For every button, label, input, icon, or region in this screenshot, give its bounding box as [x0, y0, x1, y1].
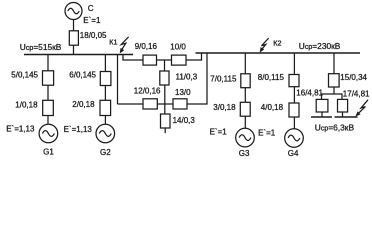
svg-text:Uср=230кВ: Uср=230кВ	[299, 41, 341, 51]
wire: 15 to split node	[333, 87, 335, 94]
resistor 14 (14/0,3)	[161, 114, 171, 128]
svg-text:E`=1,13: E`=1,13	[6, 124, 35, 133]
wire: 12 to 13	[157, 103, 173, 105]
resistor 2 (2/0,18)	[100, 100, 111, 115]
wire: lower row right segment up to 230kV bus	[187, 53, 207, 104]
svg-text:E`=1: E`=1	[210, 127, 228, 136]
resistor 12 (12/0,16)	[143, 99, 157, 109]
svg-text:G1: G1	[43, 148, 54, 157]
wire: 6 to 2	[104, 86, 106, 101]
svg-text:12/0,16: 12/0,16	[134, 87, 161, 96]
svg-text:E`=1,13: E`=1,13	[64, 125, 93, 134]
svg-text:5/0,145: 5/0,145	[11, 71, 38, 80]
wire: stub 16 to terminal	[321, 112, 323, 117]
svg-text:1/0,18: 1/0,18	[15, 101, 38, 110]
resistor 16 (16/4,81)	[316, 99, 328, 112]
svg-text:18/0,05: 18/0,05	[80, 31, 107, 40]
generator C (circle with sine)	[65, 3, 82, 20]
svg-text:16/4,81: 16/4,81	[296, 89, 323, 98]
svg-text:3/0,18: 3/0,18	[213, 103, 236, 112]
wire: stub below 14	[164, 128, 166, 133]
wire: 9 to 10	[157, 59, 172, 61]
wire: G2 column from bus515	[104, 55, 106, 72]
svg-text:14/0,3: 14/0,3	[173, 116, 196, 125]
svg-text:G2: G2	[100, 148, 111, 157]
svg-text:13/0: 13/0	[175, 88, 191, 97]
svg-text:К2: К2	[273, 38, 281, 47]
svg-text:Uср=515кВ: Uср=515кВ	[20, 42, 62, 52]
fault K2 lightning arrow	[260, 38, 269, 52]
wire: 3 to G3	[244, 116, 246, 128]
bus Ucp=230kV	[196, 52, 361, 54]
bus Ucp=515kV	[24, 54, 133, 56]
wire: 7 to 3	[244, 88, 246, 103]
wire: split connector	[322, 94, 343, 99]
svg-text:C: C	[88, 4, 94, 13]
resistor 8 (8/0,115)	[289, 75, 299, 87]
svg-text:8/0,115: 8/0,115	[258, 73, 285, 82]
svg-text:Uср=6,3кВ: Uср=6,3кВ	[315, 122, 355, 132]
wire: 5 to 1	[47, 85, 49, 100]
resistor 10 (10/0)	[172, 55, 187, 65]
fault lightning arrow at 6,3kV terminal	[355, 100, 368, 117]
wire: 8 to 4	[293, 87, 295, 103]
wire: 18 to 515kV bus	[73, 45, 75, 54]
wire: 1 to G1	[47, 116, 49, 124]
generator G3	[236, 128, 255, 147]
wire: C to transformer 18	[73, 20, 75, 31]
svg-text:9/0,16: 9/0,16	[135, 42, 158, 51]
resistor 1 (1/0,18)	[43, 100, 54, 115]
resistor 15 (15/0,34)	[329, 74, 340, 87]
svg-text:G3: G3	[239, 149, 250, 158]
resistor 17 (17/4,81)	[338, 99, 348, 112]
generator G1	[39, 124, 58, 143]
resistor 4 (4/0,18)	[289, 103, 299, 117]
wire: 11 down through lower row to 14	[164, 85, 166, 114]
resistor 3 (3/0,18)	[240, 102, 250, 116]
svg-text:G4: G4	[288, 149, 299, 158]
wire: G4 column from bus230	[293, 53, 295, 75]
resistor 9 (9/0,16)	[143, 55, 157, 65]
resistor 6 (6/0,145)	[100, 72, 111, 86]
resistor 5 (5/0,145)	[43, 71, 54, 85]
svg-text:4/0,18: 4/0,18	[261, 103, 284, 112]
resistor 18 (18/0,05)	[69, 31, 78, 45]
svg-text:11/0,3: 11/0,3	[176, 73, 198, 82]
wire: bridge middle vertical top (row to 11)	[164, 60, 166, 71]
svg-text:E`=1: E`=1	[258, 128, 276, 137]
terminal bar under 17 (Ucp=6,3kV)	[335, 116, 358, 118]
svg-text:15/0,34: 15/0,34	[340, 73, 367, 82]
wire: 10 up to 230kV bus	[186, 53, 202, 60]
svg-text:7/0,115: 7/0,115	[210, 75, 237, 84]
wire: load column from bus230	[333, 53, 335, 74]
wire: lower row left segment	[118, 103, 144, 105]
wire: stub 17 to terminal	[342, 112, 344, 117]
fault K1 lightning arrow	[120, 37, 129, 54]
svg-text:6/0,145: 6/0,145	[69, 71, 96, 80]
wire: top-row jog from bus515	[123, 55, 143, 61]
wire: 2 to G2	[104, 116, 106, 124]
svg-text:17/4,81: 17/4,81	[343, 90, 370, 99]
svg-text:10/0: 10/0	[170, 43, 186, 52]
wire: G3 column from bus230	[244, 53, 246, 74]
terminal bar under 16 (Ucp=6,3kV)	[311, 116, 332, 118]
wire: 4 to G4	[293, 117, 295, 129]
resistor 7 (7/0,115)	[241, 74, 250, 88]
svg-text:E`=1: E`=1	[83, 16, 101, 25]
resistor 13 (13/0)	[173, 99, 187, 109]
resistor 11 (11/0,3)	[160, 71, 169, 85]
svg-text:2/0,18: 2/0,18	[72, 100, 95, 109]
wire: G1 column from bus515	[47, 55, 49, 71]
generator G2	[96, 124, 115, 143]
wire: bridge left vertical (bus515 down to lower row)	[117, 55, 119, 105]
svg-text:К1: К1	[109, 37, 117, 46]
generator G4	[285, 129, 304, 148]
